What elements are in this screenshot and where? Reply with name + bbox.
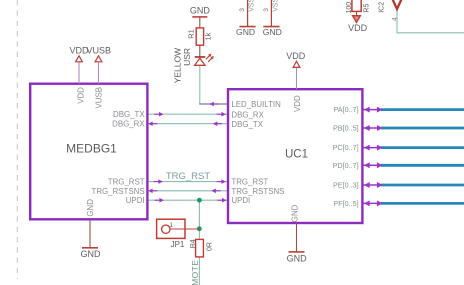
svg-text:GND: GND <box>287 254 308 264</box>
bus entry arrow PE <box>363 182 383 188</box>
wire TRG_RST <box>147 181 227 183</box>
svg-text:UPDI: UPDI <box>231 196 250 205</box>
bus PF[0..5] <box>381 202 464 205</box>
svg-text:R5: R5 <box>363 4 370 13</box>
ground symbol under UC1 <box>287 252 308 264</box>
svg-text:DBG_TX: DBG_TX <box>231 120 263 129</box>
wire DBG_TX (MEDBG1 to UC1) <box>147 113 227 115</box>
svg-text:DBG_RX: DBG_RX <box>231 111 264 120</box>
bus PD[0..7] <box>381 164 464 167</box>
jumper JP1 <box>157 219 200 249</box>
UC1 pin VDD (top) <box>293 68 302 112</box>
svg-text:GND: GND <box>263 27 282 37</box>
bus entry arrow PD <box>363 162 383 168</box>
LED USR (YELLOW) <box>173 48 214 83</box>
flow arrows on DBG_TX wire (rightward) <box>154 112 226 117</box>
UC1 left pin names <box>231 100 284 205</box>
svg-text:JP1: JP1 <box>171 240 185 249</box>
svg-text:100: 100 <box>346 2 353 14</box>
svg-text:USR: USR <box>182 48 192 66</box>
svg-text:VDD: VDD <box>293 95 302 112</box>
ground symbol, second <box>263 27 282 38</box>
svg-text:VUSB: VUSB <box>87 46 112 56</box>
bus entry arrow PF <box>363 200 383 206</box>
wire TRG_RSTSNS <box>147 190 227 192</box>
UC1 right bus pin names <box>333 105 359 208</box>
bus entry arrow PC <box>363 145 383 151</box>
svg-text:GND: GND <box>190 6 211 16</box>
svg-text:TRG_RST: TRG_RST <box>108 178 145 187</box>
svg-text:UC1: UC1 <box>285 149 308 161</box>
svg-text:DBG_RX: DBG_RX <box>112 120 145 129</box>
junction UPDI / R4 <box>197 198 202 203</box>
svg-text:TRG_RST: TRG_RST <box>231 178 268 187</box>
svg-text:VDD: VDD <box>76 87 85 104</box>
svg-text:GND: GND <box>236 27 255 37</box>
resistor R1 1k <box>186 28 212 57</box>
svg-text:TRG_RSTSNS: TRG_RSTSNS <box>92 187 145 196</box>
svg-text:PA[0..7]: PA[0..7] <box>334 105 359 114</box>
svg-text:1k: 1k <box>204 32 213 40</box>
bus PE[0..3] <box>381 184 464 187</box>
sheet dashed border line <box>16 0 18 279</box>
svg-text:3: 3 <box>239 8 246 12</box>
MEDBG1 right pin names <box>92 110 146 205</box>
MEDBG1 pin GND (bottom) <box>86 199 95 248</box>
svg-text:PB[0..5]: PB[0..5] <box>333 124 359 133</box>
wire R4 bottom to sheet edge <box>198 257 200 285</box>
symbol MEDBG1 body <box>30 84 147 220</box>
power symbol VDD above MEDBG1 <box>69 46 89 62</box>
flow arrows on UPDI wire (rightward) <box>155 198 227 203</box>
svg-text:MEDBG1: MEDBG1 <box>66 142 117 156</box>
junction JP1 / R4 <box>197 226 202 231</box>
wire UPDI down to R4 <box>198 200 200 239</box>
MEDBG1 pin VDD (top) <box>76 62 85 104</box>
svg-text:VSS: VSS <box>272 0 279 12</box>
svg-text:TRG_RST: TRG_RST <box>166 171 211 182</box>
svg-text:0R: 0R <box>206 242 213 251</box>
svg-text:GND: GND <box>86 199 95 217</box>
svg-text:DBG_TX: DBG_TX <box>113 110 145 119</box>
ground symbol under MEDBG1 <box>81 248 102 259</box>
svg-text:PE[0..3]: PE[0..3] <box>333 181 359 190</box>
pin VSS (3) to ground, second <box>263 0 279 27</box>
svg-text:UPDI: UPDI <box>126 196 145 205</box>
bus entry arrow PA <box>363 107 383 113</box>
IC2 pin 4 arrow (clipped at top) <box>378 0 401 21</box>
svg-text:1: 1 <box>170 222 174 229</box>
bus PC[0..7] <box>381 146 464 149</box>
wire LED to LED_BUILTIN pin <box>199 65 201 104</box>
svg-text:4: 4 <box>392 17 399 21</box>
wire DBG_RX (MEDBG1 to UC1) <box>147 123 227 125</box>
power symbol VDD above UC1 <box>286 51 306 68</box>
symbol UC1 body <box>228 89 362 223</box>
flow arrows on TRG_RSTSNS wire (leftward) <box>148 189 220 194</box>
ground symbol above R1 <box>190 6 211 28</box>
wire UPDI <box>147 199 227 201</box>
svg-text:GND: GND <box>81 249 102 259</box>
UC1 pin GND (bottom) <box>290 204 299 252</box>
resistor R4 0R <box>190 239 214 257</box>
svg-text:VSS: VSS <box>249 0 256 12</box>
svg-text:LED_BUILTIN: LED_BUILTIN <box>231 100 281 109</box>
power symbol VDD below R5 (pointing down) <box>348 16 368 33</box>
svg-text:PF[0..5]: PF[0..5] <box>333 199 358 208</box>
bus PA[0..7] <box>381 108 464 111</box>
ground symbol, first <box>236 27 256 38</box>
svg-text:REMOTE: REMOTE <box>190 260 200 285</box>
wire IC2 pin4 to right edge <box>397 9 464 33</box>
flow arrows on TRG_RST wire (rightward) <box>154 179 226 184</box>
svg-text:VUSB: VUSB <box>95 87 104 109</box>
svg-text:GND: GND <box>290 204 299 222</box>
svg-text:3: 3 <box>263 8 270 12</box>
power symbol VUSB above MEDBG1 <box>87 46 112 62</box>
MEDBG1 pin VUSB (top) <box>95 62 104 108</box>
svg-text:R4: R4 <box>190 239 197 248</box>
svg-text:PD[0..7]: PD[0..7] <box>333 161 359 170</box>
svg-text:IC2: IC2 <box>378 2 385 13</box>
flow arrows on DBG_RX wire (leftward) <box>148 121 222 126</box>
svg-text:VDD: VDD <box>286 51 306 61</box>
pin VSS (3) to ground, first <box>239 0 255 27</box>
svg-text:VDD: VDD <box>348 23 368 33</box>
svg-text:R1: R1 <box>186 29 195 39</box>
bus PB[0..5] <box>381 127 464 130</box>
svg-text:TRG_RSTSNS: TRG_RSTSNS <box>231 187 284 196</box>
svg-text:PC[0..7]: PC[0..7] <box>333 143 359 152</box>
resistor R5 100 (clipped at top) <box>346 0 371 16</box>
bus entry arrow PB <box>363 125 383 131</box>
flow arrow on LED_BUILTIN wire (leftward) <box>209 102 218 107</box>
